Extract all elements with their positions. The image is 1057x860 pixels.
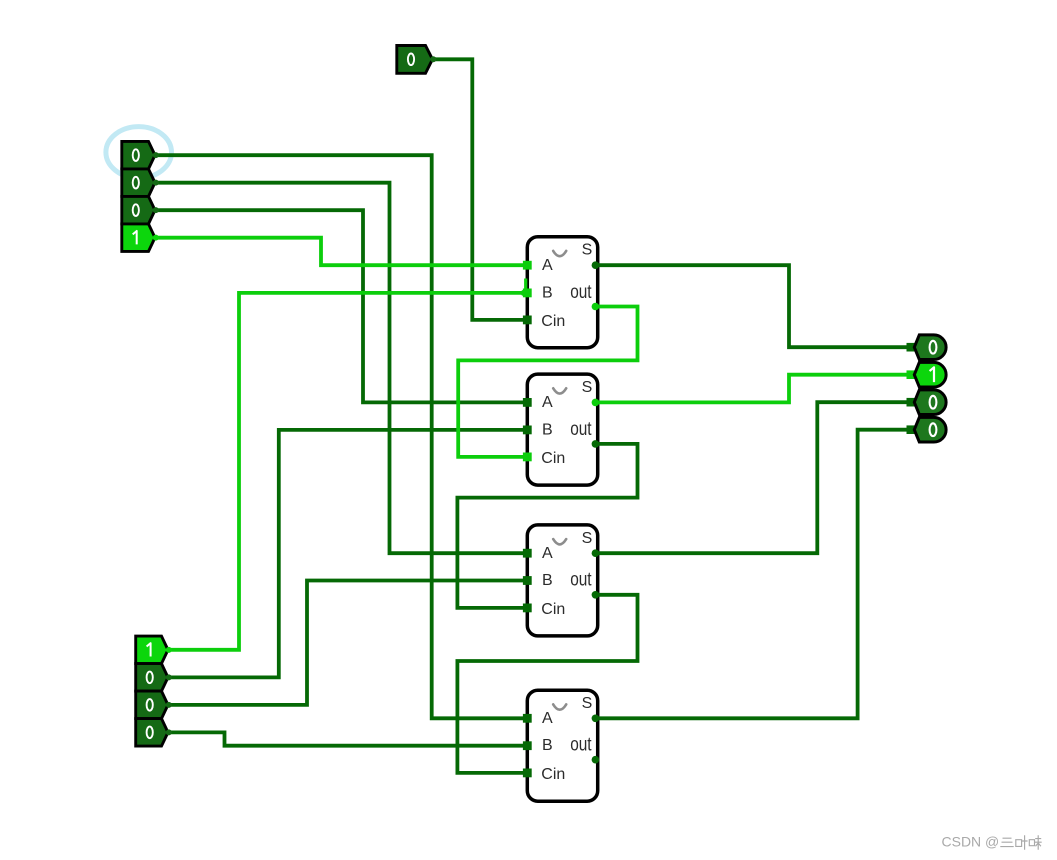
input pin A2 value 0 (122, 169, 155, 197)
svg-text:S: S (582, 530, 593, 547)
wire B3: input pin B3 to U4 B (170, 732, 528, 745)
svg-text:S: S (582, 379, 593, 396)
U4 pin S (output node) (592, 715, 600, 723)
U3 pin B (input node) (523, 576, 532, 585)
full adder U3 (bit 2) (527, 525, 597, 636)
selection highlight ring around input pin A3 (106, 127, 172, 178)
U3 pin out (output node) (592, 591, 600, 599)
wire A0: input pin A0 to U1 A (156, 238, 528, 266)
U1 pin B (input node) (523, 289, 532, 298)
wire carry out2: U2 out to U3 Cin (457, 444, 637, 608)
U1 pin out (output node) (592, 303, 600, 311)
svg-text:Cin: Cin (541, 766, 565, 783)
svg-text:CSDN @: CSDN @ (942, 834, 1000, 850)
full adder U4 (bit 3) (527, 690, 597, 801)
wire stem at U1 B input (524, 279, 527, 292)
output pin S3 value 0 (907, 425, 917, 434)
U1 pin Cin (input node) (523, 316, 532, 325)
U4 pin B (input node) (523, 741, 532, 750)
input pin B1 value 0 (136, 664, 168, 692)
wire S1: U1 S to output pin S0 (596, 265, 910, 347)
U2 pin S (output node) (592, 399, 600, 407)
wire B1: input pin B1 to U2 B (170, 430, 528, 678)
wire carry out1: U1 out to U2 Cin (458, 307, 637, 457)
svg-text:B: B (542, 421, 553, 438)
U4 pin out (output node) (592, 756, 600, 764)
U2 pin A (input node) (523, 398, 532, 407)
svg-text:out: out (570, 282, 592, 303)
U2 pin out (output node) (592, 440, 600, 448)
svg-text:B: B (542, 737, 553, 754)
wire S3: U3 S to output pin S2 (596, 402, 910, 553)
svg-text:B: B (542, 572, 553, 589)
input pin A1 value 0 (122, 196, 155, 224)
wire B2: input pin B2 to U3 B (170, 581, 528, 705)
U2 pin Cin (input node) (523, 453, 532, 462)
svg-text:Cin: Cin (541, 601, 565, 618)
wire A3: input pin A3 to U4 A (156, 155, 528, 718)
wire A1: input pin A1 to U2 A (156, 210, 528, 402)
output pin S0 value 0 (907, 343, 917, 352)
svg-text:A: A (542, 710, 553, 727)
svg-text:out: out (570, 419, 592, 440)
wire S2: U2 S to output pin S1 (596, 375, 910, 403)
wire S4: U4 S to output pin S3 (596, 430, 910, 719)
full adder U2 (bit 1) (527, 374, 597, 485)
input pin B0 value 1 (136, 636, 168, 664)
svg-text:Cin: Cin (541, 313, 565, 330)
svg-text:out: out (570, 735, 592, 756)
input pin B2 value 0 (136, 691, 168, 719)
svg-text:Cin: Cin (541, 450, 565, 467)
output pin S1 value 1 (907, 370, 917, 379)
wire Cin0: top input pin to U1 Cin (433, 59, 528, 320)
svg-text:A: A (542, 545, 553, 562)
U3 pin Cin (input node) (523, 604, 532, 613)
wire B0: input pin B0 to U1 B (170, 293, 528, 650)
svg-text:S: S (582, 242, 593, 259)
watermark CSDN @三叶味 (942, 834, 1042, 850)
input pin B3 value 0 (136, 719, 168, 747)
svg-text:out: out (570, 569, 592, 590)
wire carry out3: U3 out to U4 Cin (457, 595, 637, 773)
U4 pin Cin (input node) (523, 769, 532, 778)
U1 pin A (input node) (523, 261, 532, 270)
U3 pin A (input node) (523, 549, 532, 558)
U1 pin S (output node) (592, 261, 600, 269)
full adder U1 (bit 0) (527, 237, 597, 348)
input pin A3 value 0 (122, 141, 155, 169)
wire A2: input pin A2 to U3 A (156, 183, 528, 554)
input pin A0 value 1 (122, 224, 155, 252)
U3 pin S (output node) (592, 549, 600, 557)
svg-text:B: B (542, 284, 553, 301)
output pin S2 value 0 (907, 398, 917, 407)
U2 pin B (input node) (523, 426, 532, 435)
svg-text:S: S (582, 695, 593, 712)
U4 pin A (input node) (523, 714, 532, 723)
input pin Cin0 value 0 (carry-in) (397, 46, 433, 74)
svg-text:A: A (542, 394, 553, 411)
svg-text:A: A (542, 257, 553, 274)
